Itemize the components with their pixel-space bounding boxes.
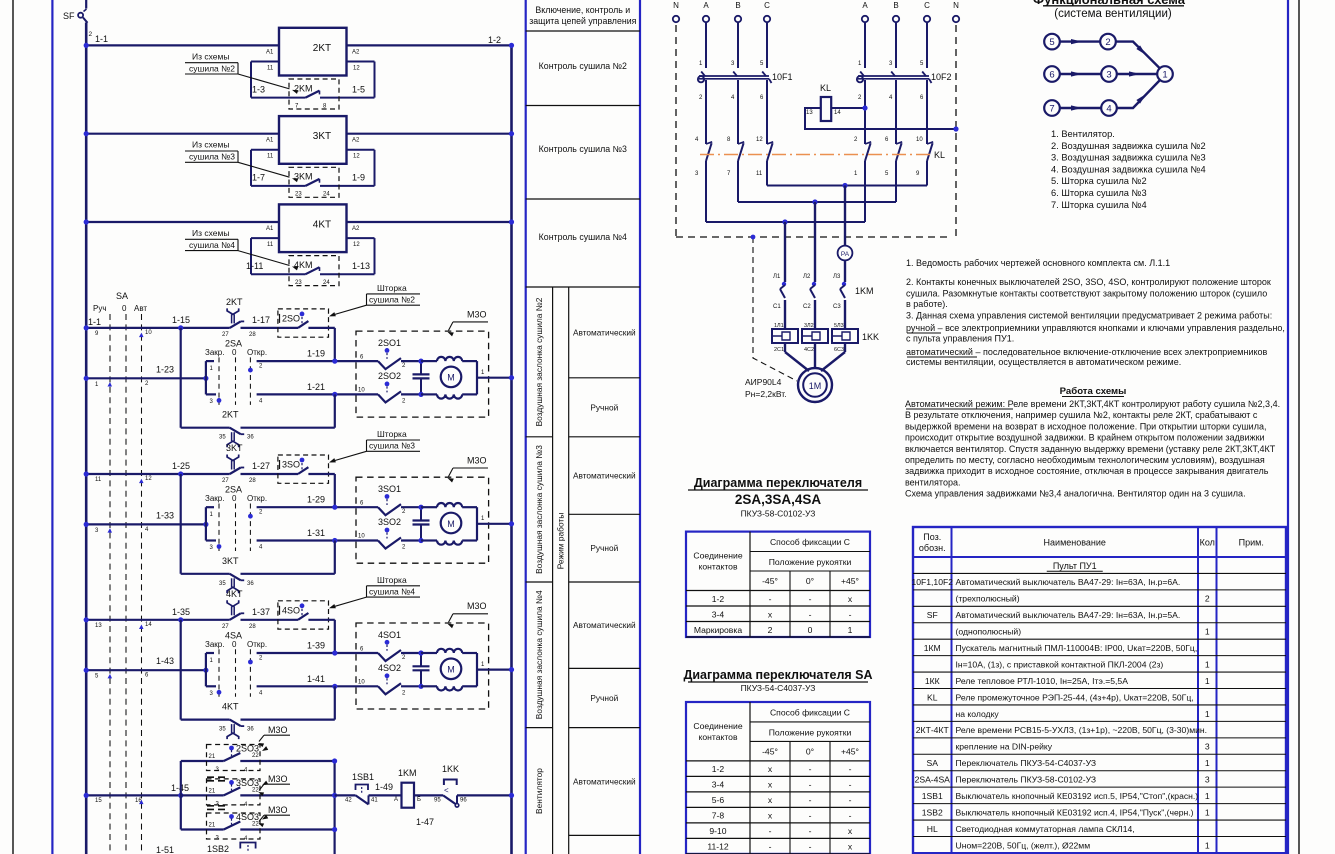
callout leader to 2KM bbox=[238, 74, 290, 89]
svg-text:24: 24 bbox=[323, 192, 330, 198]
svg-text:выдержкой времени на возврат в: выдержкой времени на возврат в исходное … bbox=[905, 422, 1266, 432]
svg-text:1-2: 1-2 bbox=[712, 764, 725, 774]
svg-text:Соединение: Соединение bbox=[693, 551, 742, 561]
parts row 1SB2 bbox=[913, 819, 1286, 821]
svg-text:Из схемы: Из схемы bbox=[192, 140, 229, 150]
node 7 functional diagram bbox=[1044, 100, 1060, 116]
svg-text:сушила №3: сушила №3 bbox=[189, 152, 235, 162]
motor M of valve сушила №2 bbox=[441, 367, 462, 388]
svg-text:Iн=10А, (1з), с приставкой кон: Iн=10А, (1з), с приставкой контактной ПК… bbox=[956, 659, 1164, 669]
wire lower branch drop to 2KT loop bbox=[334, 394, 336, 427]
svg-text:3SO1: 3SO1 bbox=[378, 484, 401, 494]
svg-text:х: х bbox=[768, 795, 773, 805]
node 1 functional diagram bbox=[1157, 66, 1173, 82]
svg-text:SF: SF bbox=[63, 11, 75, 21]
svg-text:12: 12 bbox=[353, 242, 360, 248]
svg-text:1-43: 1-43 bbox=[156, 656, 174, 666]
svg-text:Переключатель ПКУЗ-54-С4037-УЗ: Переключатель ПКУЗ-54-С4037-УЗ bbox=[956, 758, 1097, 768]
capacitor of motor сушила №2 row bbox=[420, 361, 422, 374]
svg-text:3KT: 3KT bbox=[226, 443, 243, 453]
limit switch 2SO with boundary bbox=[278, 309, 329, 337]
svg-text:11: 11 bbox=[95, 477, 102, 483]
svg-text:1KM: 1KM bbox=[855, 286, 874, 296]
svg-text:автоматический – последовател: автоматический – последовательное включе… bbox=[906, 347, 1268, 357]
wire phase drop x=706 to breaker bbox=[705, 22, 707, 68]
svg-text:4KT: 4KT bbox=[313, 220, 331, 231]
svg-text:сушила №2: сушила №2 bbox=[189, 63, 235, 73]
svg-text:происходит открытие воздушной: происходит открытие воздушной задвижки. … bbox=[905, 433, 1265, 443]
svg-text:Руч: Руч bbox=[93, 304, 107, 313]
wire fan branch 4SO3 bbox=[181, 828, 224, 830]
svg-text:1SB1: 1SB1 bbox=[352, 772, 374, 782]
svg-text:обозн.: обозн. bbox=[919, 543, 946, 553]
svg-text:Закр.: Закр. bbox=[205, 494, 224, 503]
svg-text:1KK: 1KK bbox=[442, 764, 459, 774]
svg-text:35: 35 bbox=[219, 435, 226, 441]
svg-text:Положение рукоятки: Положение рукоятки bbox=[769, 557, 852, 567]
svg-text:х: х bbox=[848, 594, 853, 604]
svg-text:10F1,10F2: 10F1,10F2 bbox=[911, 577, 953, 587]
svg-text:Uном=220В, 50Гц, (желт.), Ø22м: Uном=220В, 50Гц, (желт.), Ø22мм bbox=[956, 840, 1091, 850]
svg-text:1КМ: 1КМ bbox=[924, 643, 941, 653]
svg-text:3SO3: 3SO3 bbox=[236, 778, 259, 788]
svg-text:определить по месту, согласно: определить по месту, согласно необходимы… bbox=[905, 455, 1265, 465]
wire 1KK to N rail bbox=[457, 794, 512, 796]
svg-text:1-1: 1-1 bbox=[88, 317, 101, 327]
svg-text:1: 1 bbox=[1205, 791, 1210, 801]
svg-text:A1: A1 bbox=[266, 49, 274, 55]
svg-text:Откр.: Откр. bbox=[247, 348, 267, 357]
svg-text:28: 28 bbox=[249, 332, 256, 338]
svg-text:22: 22 bbox=[252, 753, 259, 759]
wire 3KT pin12 stub bbox=[347, 149, 375, 151]
svg-text:х: х bbox=[768, 764, 773, 774]
wire 1-7 left drop to 3KM contact bbox=[250, 150, 252, 186]
svg-text:Рн=2,2кВт.: Рн=2,2кВт. bbox=[745, 389, 787, 399]
svg-text:2KT: 2KT bbox=[313, 43, 331, 54]
dash-dot mechanical link of KL contacts (orange) bbox=[700, 154, 930, 156]
svg-text:B: B bbox=[735, 1, 740, 10]
motor winding lower bbox=[421, 393, 437, 395]
contacts KL changeover bank bbox=[706, 142, 712, 144]
svg-text:3KT: 3KT bbox=[313, 131, 331, 142]
circuit breaker 10F2 3-pole bbox=[857, 76, 863, 82]
svg-text:Автоматический: Автоматический bbox=[573, 620, 636, 630]
svg-text:2SO: 2SO bbox=[282, 313, 300, 323]
wire 1-9 right drop bbox=[374, 150, 376, 186]
svg-text:6С3: 6С3 bbox=[834, 347, 844, 353]
svg-text:Пульт ПУ1: Пульт ПУ1 bbox=[1053, 561, 1097, 571]
wire converge to motor bbox=[785, 352, 809, 371]
svg-text:2. Воздушная задвижка сушила №: 2. Воздушная задвижка сушила №2 bbox=[1051, 141, 1206, 151]
svg-text:С1: С1 bbox=[773, 304, 781, 310]
motor 1M bbox=[798, 368, 832, 402]
svg-text:1: 1 bbox=[1205, 659, 1210, 669]
svg-text:2SO2: 2SO2 bbox=[378, 371, 401, 381]
svg-text:1. Вентилятор.: 1. Вентилятор. bbox=[1051, 129, 1115, 139]
wire 1-41 lower branch bbox=[257, 685, 356, 687]
svg-text:1-2: 1-2 bbox=[488, 35, 501, 45]
actuator boundary М3О for сушила №2 bbox=[356, 331, 489, 417]
contact 2KM (from dryer scheme) bbox=[306, 91, 320, 98]
svg-text:A2: A2 bbox=[352, 138, 360, 144]
svg-text:сушила. Разомкнутые контакты с: сушила. Разомкнутые контакты соответству… bbox=[906, 289, 1267, 299]
switch table at y=702 bbox=[686, 702, 870, 854]
svg-text:10: 10 bbox=[358, 534, 365, 540]
svg-text:-: - bbox=[849, 764, 852, 774]
svg-text:1: 1 bbox=[1205, 758, 1210, 768]
svg-text:3: 3 bbox=[1106, 70, 1111, 81]
limit switch 4SO with boundary bbox=[278, 601, 329, 629]
svg-text:Включение, контроль и: Включение, контроль и bbox=[535, 5, 630, 15]
svg-text:<: < bbox=[444, 786, 449, 795]
svg-text:-: - bbox=[849, 609, 852, 619]
sheet border black right line bbox=[1298, 0, 1300, 854]
svg-text:2: 2 bbox=[768, 625, 773, 635]
svg-text:на колодку: на колодку bbox=[956, 709, 1000, 719]
svg-text:-: - bbox=[809, 826, 812, 836]
svg-text:Ручной: Ручной bbox=[590, 543, 618, 553]
relay coil 2KT (time relay block) bbox=[279, 28, 347, 76]
svg-text:1-41: 1-41 bbox=[307, 674, 325, 684]
svg-text:1Л1: 1Л1 bbox=[774, 323, 784, 329]
svg-text:A1: A1 bbox=[266, 226, 274, 232]
svg-text:Диаграмма переключателя: Диаграмма переключателя bbox=[694, 476, 862, 490]
svg-text:М3О: М3О bbox=[268, 725, 288, 735]
function table rotated col Воздушная заслонка сушила №2 bbox=[526, 436, 553, 438]
wire motor output to N rail bbox=[476, 361, 478, 394]
svg-text:PA: PA bbox=[841, 251, 850, 258]
link 7-4 bbox=[1060, 107, 1101, 109]
power panel dashed boundary bbox=[675, 25, 677, 237]
wire 1-29 upper branch bbox=[257, 506, 356, 508]
svg-text:-: - bbox=[849, 811, 852, 821]
parts row на колодку bbox=[913, 720, 1286, 722]
wire phase drop x=896 to breaker bbox=[895, 22, 897, 68]
svg-text:Ручной: Ручной bbox=[590, 693, 618, 703]
svg-text:в работе).: в работе). bbox=[906, 299, 948, 309]
svg-text:Шторка: Шторка bbox=[377, 283, 407, 293]
parts table frame bbox=[913, 527, 1286, 853]
svg-text:1. Ведомость рабочих чертежей: 1. Ведомость рабочих чертежей основного … bbox=[906, 258, 1170, 268]
wire 1-49 bbox=[369, 794, 402, 796]
parts row 1КК bbox=[913, 688, 1286, 690]
svg-text:0: 0 bbox=[232, 640, 237, 649]
svg-text:A2: A2 bbox=[352, 226, 360, 232]
wire phase A crossover bbox=[705, 169, 707, 222]
svg-text:вентилятора.: вентилятора. bbox=[905, 478, 960, 488]
svg-text:2SA,3SA,4SA: 2SA,3SA,4SA bbox=[735, 492, 822, 507]
function table lower inner verticals bbox=[552, 287, 554, 854]
breaker SF bbox=[85, 0, 87, 9]
parts row 2КТ-4КТ bbox=[913, 737, 1286, 739]
svg-text:3SO: 3SO bbox=[282, 460, 300, 470]
wire motor feeder A bbox=[784, 222, 786, 282]
svg-text:Светодиодная коммутаторная лам: Светодиодная коммутаторная лампа СКЛ14, bbox=[956, 824, 1135, 834]
svg-text:5: 5 bbox=[1049, 37, 1054, 48]
svg-text:1-9: 1-9 bbox=[352, 173, 365, 183]
svg-text:1-15: 1-15 bbox=[172, 315, 190, 325]
wire motor feeder B bbox=[814, 202, 816, 282]
svg-text:Пускатель магнитный ПМЛ-110004: Пускатель магнитный ПМЛ-110004В: IP00, U… bbox=[956, 643, 1198, 653]
wire fan parallel right bus bbox=[334, 761, 336, 854]
wire 4KT row drop to loop bbox=[180, 620, 182, 720]
svg-text:1-11: 1-11 bbox=[246, 261, 263, 271]
svg-text:-: - bbox=[809, 811, 812, 821]
drawing frame blue right border bbox=[1287, 0, 1289, 854]
svg-text:С2: С2 bbox=[803, 304, 811, 310]
svg-text:Л1: Л1 bbox=[773, 274, 781, 280]
wire KL coil to phase A2 bbox=[831, 107, 865, 109]
svg-text:1-25: 1-25 bbox=[172, 461, 190, 471]
svg-text:Закр.: Закр. bbox=[205, 640, 224, 649]
dashed boundary of contact 4KM bbox=[289, 256, 339, 286]
wire 3KT row drop to loop bbox=[180, 474, 182, 574]
svg-text:системы вентиляции, осуществля: системы вентиляции, осуществляется в авт… bbox=[906, 357, 1181, 367]
parts row SA bbox=[913, 770, 1286, 772]
svg-text:1: 1 bbox=[1205, 840, 1210, 850]
svg-text:1-21: 1-21 bbox=[307, 382, 325, 392]
svg-text:7. Шторка сушила №4: 7. Шторка сушила №4 bbox=[1051, 200, 1147, 210]
parts row крепление на DIN-р bbox=[913, 753, 1286, 755]
svg-text:Л2: Л2 bbox=[803, 274, 811, 280]
contact 4KT timer (35-36) return bbox=[181, 718, 230, 720]
svg-text:KL: KL bbox=[934, 150, 945, 160]
svg-text:11: 11 bbox=[267, 154, 274, 160]
svg-text:сушила №4: сушила №4 bbox=[369, 586, 415, 596]
svg-text:1-29: 1-29 bbox=[307, 495, 325, 505]
svg-text:1KK: 1KK bbox=[862, 332, 879, 342]
svg-text:A: A bbox=[703, 1, 709, 10]
wire lower branch drop to 4KT loop bbox=[334, 686, 336, 719]
wire 4KT pin11 stub bbox=[251, 237, 279, 239]
svg-text:3. Воздушная задвижка сушила №: 3. Воздушная задвижка сушила №3 bbox=[1051, 153, 1206, 163]
svg-text:5. Шторка сушила №2: 5. Шторка сушила №2 bbox=[1051, 176, 1147, 186]
motor winding upper bbox=[421, 506, 437, 508]
svg-text:4: 4 bbox=[1106, 104, 1111, 115]
link 5-2 bbox=[1060, 40, 1100, 42]
svg-text:Положение рукоятки: Положение рукоятки bbox=[769, 727, 852, 737]
svg-text:Поз.: Поз. bbox=[923, 532, 941, 542]
svg-text:11: 11 bbox=[267, 242, 274, 248]
svg-text:Режим работы: Режим работы bbox=[556, 513, 566, 570]
svg-text:4SO: 4SO bbox=[282, 605, 300, 615]
wire left control rail L1 bbox=[85, 23, 88, 854]
limit switch contact 2SO3 bbox=[224, 753, 241, 761]
svg-text:Ручной: Ручной bbox=[590, 402, 618, 412]
svg-text:контактов: контактов bbox=[698, 562, 737, 572]
svg-text:М3О: М3О bbox=[467, 455, 487, 465]
capacitor of motor сушила №4 row bbox=[420, 653, 422, 666]
svg-text:2КТ-4КТ: 2КТ-4КТ bbox=[916, 725, 950, 735]
limit switch 3SO with boundary bbox=[278, 455, 329, 483]
svg-text:1М: 1М bbox=[809, 381, 822, 391]
svg-text:A2: A2 bbox=[352, 49, 360, 55]
motor winding upper bbox=[421, 652, 437, 654]
svg-text:1-31: 1-31 bbox=[307, 528, 325, 538]
svg-text:1: 1 bbox=[848, 625, 853, 635]
wire phase drop x=738 to breaker bbox=[737, 22, 739, 68]
dashed boundary 2SO3 bbox=[207, 745, 261, 771]
svg-text:A: A bbox=[862, 1, 868, 10]
svg-text:-: - bbox=[769, 842, 772, 852]
wire lower branch drop to 3KT loop bbox=[334, 541, 336, 574]
svg-text:1-1: 1-1 bbox=[95, 34, 108, 44]
svg-text:1-51: 1-51 bbox=[156, 845, 174, 854]
contact 3KM (from dryer scheme) bbox=[306, 179, 320, 186]
svg-text:-: - bbox=[809, 780, 812, 790]
svg-text:9-10: 9-10 bbox=[709, 826, 726, 836]
switch SA dashed line 0 position bbox=[125, 314, 127, 854]
svg-text:х: х bbox=[768, 609, 773, 619]
svg-text:21: 21 bbox=[209, 823, 216, 829]
wire 2KT row drop to loop bbox=[180, 328, 182, 428]
svg-text:2SO3: 2SO3 bbox=[236, 744, 259, 754]
wire 1-19 upper branch bbox=[257, 360, 356, 362]
parts row Iн=10А, (1з), с пр bbox=[913, 671, 1286, 673]
node 3 functional diagram bbox=[1101, 66, 1117, 82]
link 4-1 bbox=[1117, 80, 1160, 108]
svg-text:2SO1: 2SO1 bbox=[378, 338, 401, 348]
svg-text:2. Контакты конечных выключате: 2. Контакты конечных выключателей 2SO, 3… bbox=[906, 277, 1271, 287]
sheet border black left line bbox=[12, 0, 14, 854]
svg-text:4KT: 4KT bbox=[222, 702, 239, 712]
callout leader to 3KM bbox=[238, 162, 290, 177]
svg-text:Автоматический: Автоматический bbox=[573, 471, 636, 481]
svg-text:3: 3 bbox=[1205, 775, 1210, 785]
svg-text:27: 27 bbox=[222, 624, 229, 630]
wire 1-27 bbox=[241, 473, 299, 475]
svg-text:1: 1 bbox=[1205, 627, 1210, 637]
actuator boundary М3О for сушила №3 bbox=[356, 477, 489, 563]
contact 3KT timer (27-28) bbox=[230, 468, 241, 475]
svg-text:Вентилятор: Вентилятор bbox=[534, 768, 544, 814]
wire 1-15 row feed bbox=[86, 327, 230, 329]
wire phase drop x=767 to breaker bbox=[766, 22, 768, 68]
svg-text:10: 10 bbox=[916, 137, 923, 143]
wire bus feeding 4KT row bbox=[86, 221, 511, 223]
svg-text:1-7: 1-7 bbox=[252, 173, 265, 183]
svg-text:14: 14 bbox=[834, 110, 841, 116]
svg-text:1-17: 1-17 bbox=[252, 315, 270, 325]
svg-text:Выключатель кнопочный КЕ03192: Выключатель кнопочный КЕ03192 исп.4, IP5… bbox=[956, 807, 1194, 817]
svg-text:36: 36 bbox=[247, 581, 254, 587]
svg-text:с пульта управления ПУ1.: с пульта управления ПУ1. bbox=[906, 333, 1014, 343]
svg-text:4KT: 4KT bbox=[226, 589, 243, 599]
svg-text:1-23: 1-23 bbox=[156, 364, 174, 374]
svg-text:Наименование: Наименование bbox=[1044, 538, 1106, 548]
svg-text:2KT: 2KT bbox=[222, 410, 239, 420]
svg-text:21: 21 bbox=[209, 788, 216, 794]
wire right control rail N bbox=[510, 45, 513, 854]
svg-text:Выключатель кнопочный КЕ03192: Выключатель кнопочный КЕ03192 исп.5, IP5… bbox=[956, 791, 1199, 801]
svg-text:контактов: контактов bbox=[698, 732, 737, 742]
svg-text:7-8: 7-8 bbox=[712, 811, 725, 821]
svg-text:3. Данная схема управления сис: 3. Данная схема управления системой вент… bbox=[906, 311, 1272, 321]
switch SA dashed line Ruch position bbox=[109, 314, 111, 854]
wire 1-5 right drop bbox=[374, 62, 376, 98]
svg-text:96: 96 bbox=[460, 798, 467, 804]
svg-text:28: 28 bbox=[249, 624, 256, 630]
capacitor of motor сушила №3 row bbox=[420, 507, 422, 520]
svg-text:Работа схемы: Работа схемы bbox=[1060, 386, 1127, 397]
dashed boundary 3SO3 bbox=[207, 779, 261, 805]
parts row Пульт ПУ1 bbox=[913, 572, 1286, 574]
dashed boundary of contact 2KM bbox=[289, 79, 339, 109]
svg-text:Закр.: Закр. bbox=[205, 348, 224, 357]
svg-text:23: 23 bbox=[295, 192, 302, 198]
svg-text:35: 35 bbox=[219, 581, 226, 587]
svg-text:х: х bbox=[848, 842, 853, 852]
wire 4KT pin12 stub bbox=[347, 237, 375, 239]
svg-text:22: 22 bbox=[252, 787, 259, 793]
svg-text:1-19: 1-19 bbox=[307, 349, 325, 359]
svg-text:10: 10 bbox=[145, 330, 152, 336]
svg-text:1-5: 1-5 bbox=[352, 84, 365, 94]
svg-text:(система вентиляции): (система вентиляции) bbox=[1054, 8, 1172, 20]
svg-text:14: 14 bbox=[145, 622, 152, 628]
mechanical link between fan switches bbox=[207, 776, 229, 778]
svg-text:2: 2 bbox=[1205, 594, 1210, 604]
wire phase C crossover bbox=[766, 169, 768, 186]
wire 1-13 right drop bbox=[374, 238, 376, 274]
svg-text:KL: KL bbox=[820, 83, 831, 93]
wire fan branch 2SO3 bbox=[181, 760, 224, 762]
svg-text:0°: 0° bbox=[806, 747, 814, 757]
function table rotated col Воздушная заслонка сушила №4 bbox=[526, 727, 553, 729]
svg-text:23: 23 bbox=[295, 280, 302, 286]
svg-text:12: 12 bbox=[756, 137, 763, 143]
svg-text:1: 1 bbox=[1205, 807, 1210, 817]
actuator boundary М3О for сушила №4 bbox=[356, 623, 489, 709]
svg-text:+45°: +45° bbox=[841, 747, 859, 757]
contact 4KM (from dryer scheme) bbox=[306, 267, 320, 274]
contactor coil 1KM bbox=[402, 783, 415, 808]
wire phase drop x=865 to breaker bbox=[864, 22, 866, 68]
wire 1-33 mid feed bbox=[86, 523, 206, 525]
wire fan parallel left bus bbox=[180, 761, 182, 830]
svg-text:М3О: М3О bbox=[467, 309, 487, 319]
relay coil 3KT (time relay block) bbox=[279, 116, 347, 164]
circuit breaker 10F1 3-pole bbox=[698, 76, 704, 82]
function table left border bbox=[525, 0, 527, 854]
svg-text:защита цепей управления: защита цепей управления bbox=[529, 16, 636, 26]
svg-text:N: N bbox=[673, 1, 679, 10]
svg-text:Из схемы: Из схемы bbox=[192, 228, 229, 238]
svg-text:А: А bbox=[394, 797, 398, 803]
svg-text:0: 0 bbox=[232, 494, 237, 503]
svg-text:1-37: 1-37 bbox=[252, 607, 270, 617]
svg-text:2С1: 2С1 bbox=[774, 347, 784, 353]
svg-text:13: 13 bbox=[95, 623, 102, 629]
svg-text:95: 95 bbox=[434, 798, 441, 804]
svg-text:ПКУЗ-58-С0102-УЗ: ПКУЗ-58-С0102-УЗ bbox=[741, 509, 816, 519]
svg-text:7: 7 bbox=[1049, 104, 1054, 115]
svg-text:-: - bbox=[809, 842, 812, 852]
svg-text:М3О: М3О bbox=[467, 601, 487, 611]
svg-text:1: 1 bbox=[1162, 70, 1167, 81]
svg-text:11: 11 bbox=[267, 65, 274, 71]
wire fan branch 3SO3 bbox=[181, 794, 224, 796]
svg-text:27: 27 bbox=[222, 478, 229, 484]
contact 3KT timer (35-36) return bbox=[181, 573, 230, 575]
node 5 functional diagram bbox=[1044, 34, 1060, 50]
svg-text:Шторка: Шторка bbox=[377, 429, 407, 439]
wire 1-17 bbox=[241, 327, 299, 329]
svg-text:ручной – все электроприемники: ручной – все электроприемники управляютс… bbox=[906, 323, 1285, 333]
node 2 functional diagram bbox=[1100, 34, 1116, 50]
svg-text:12: 12 bbox=[145, 476, 152, 482]
